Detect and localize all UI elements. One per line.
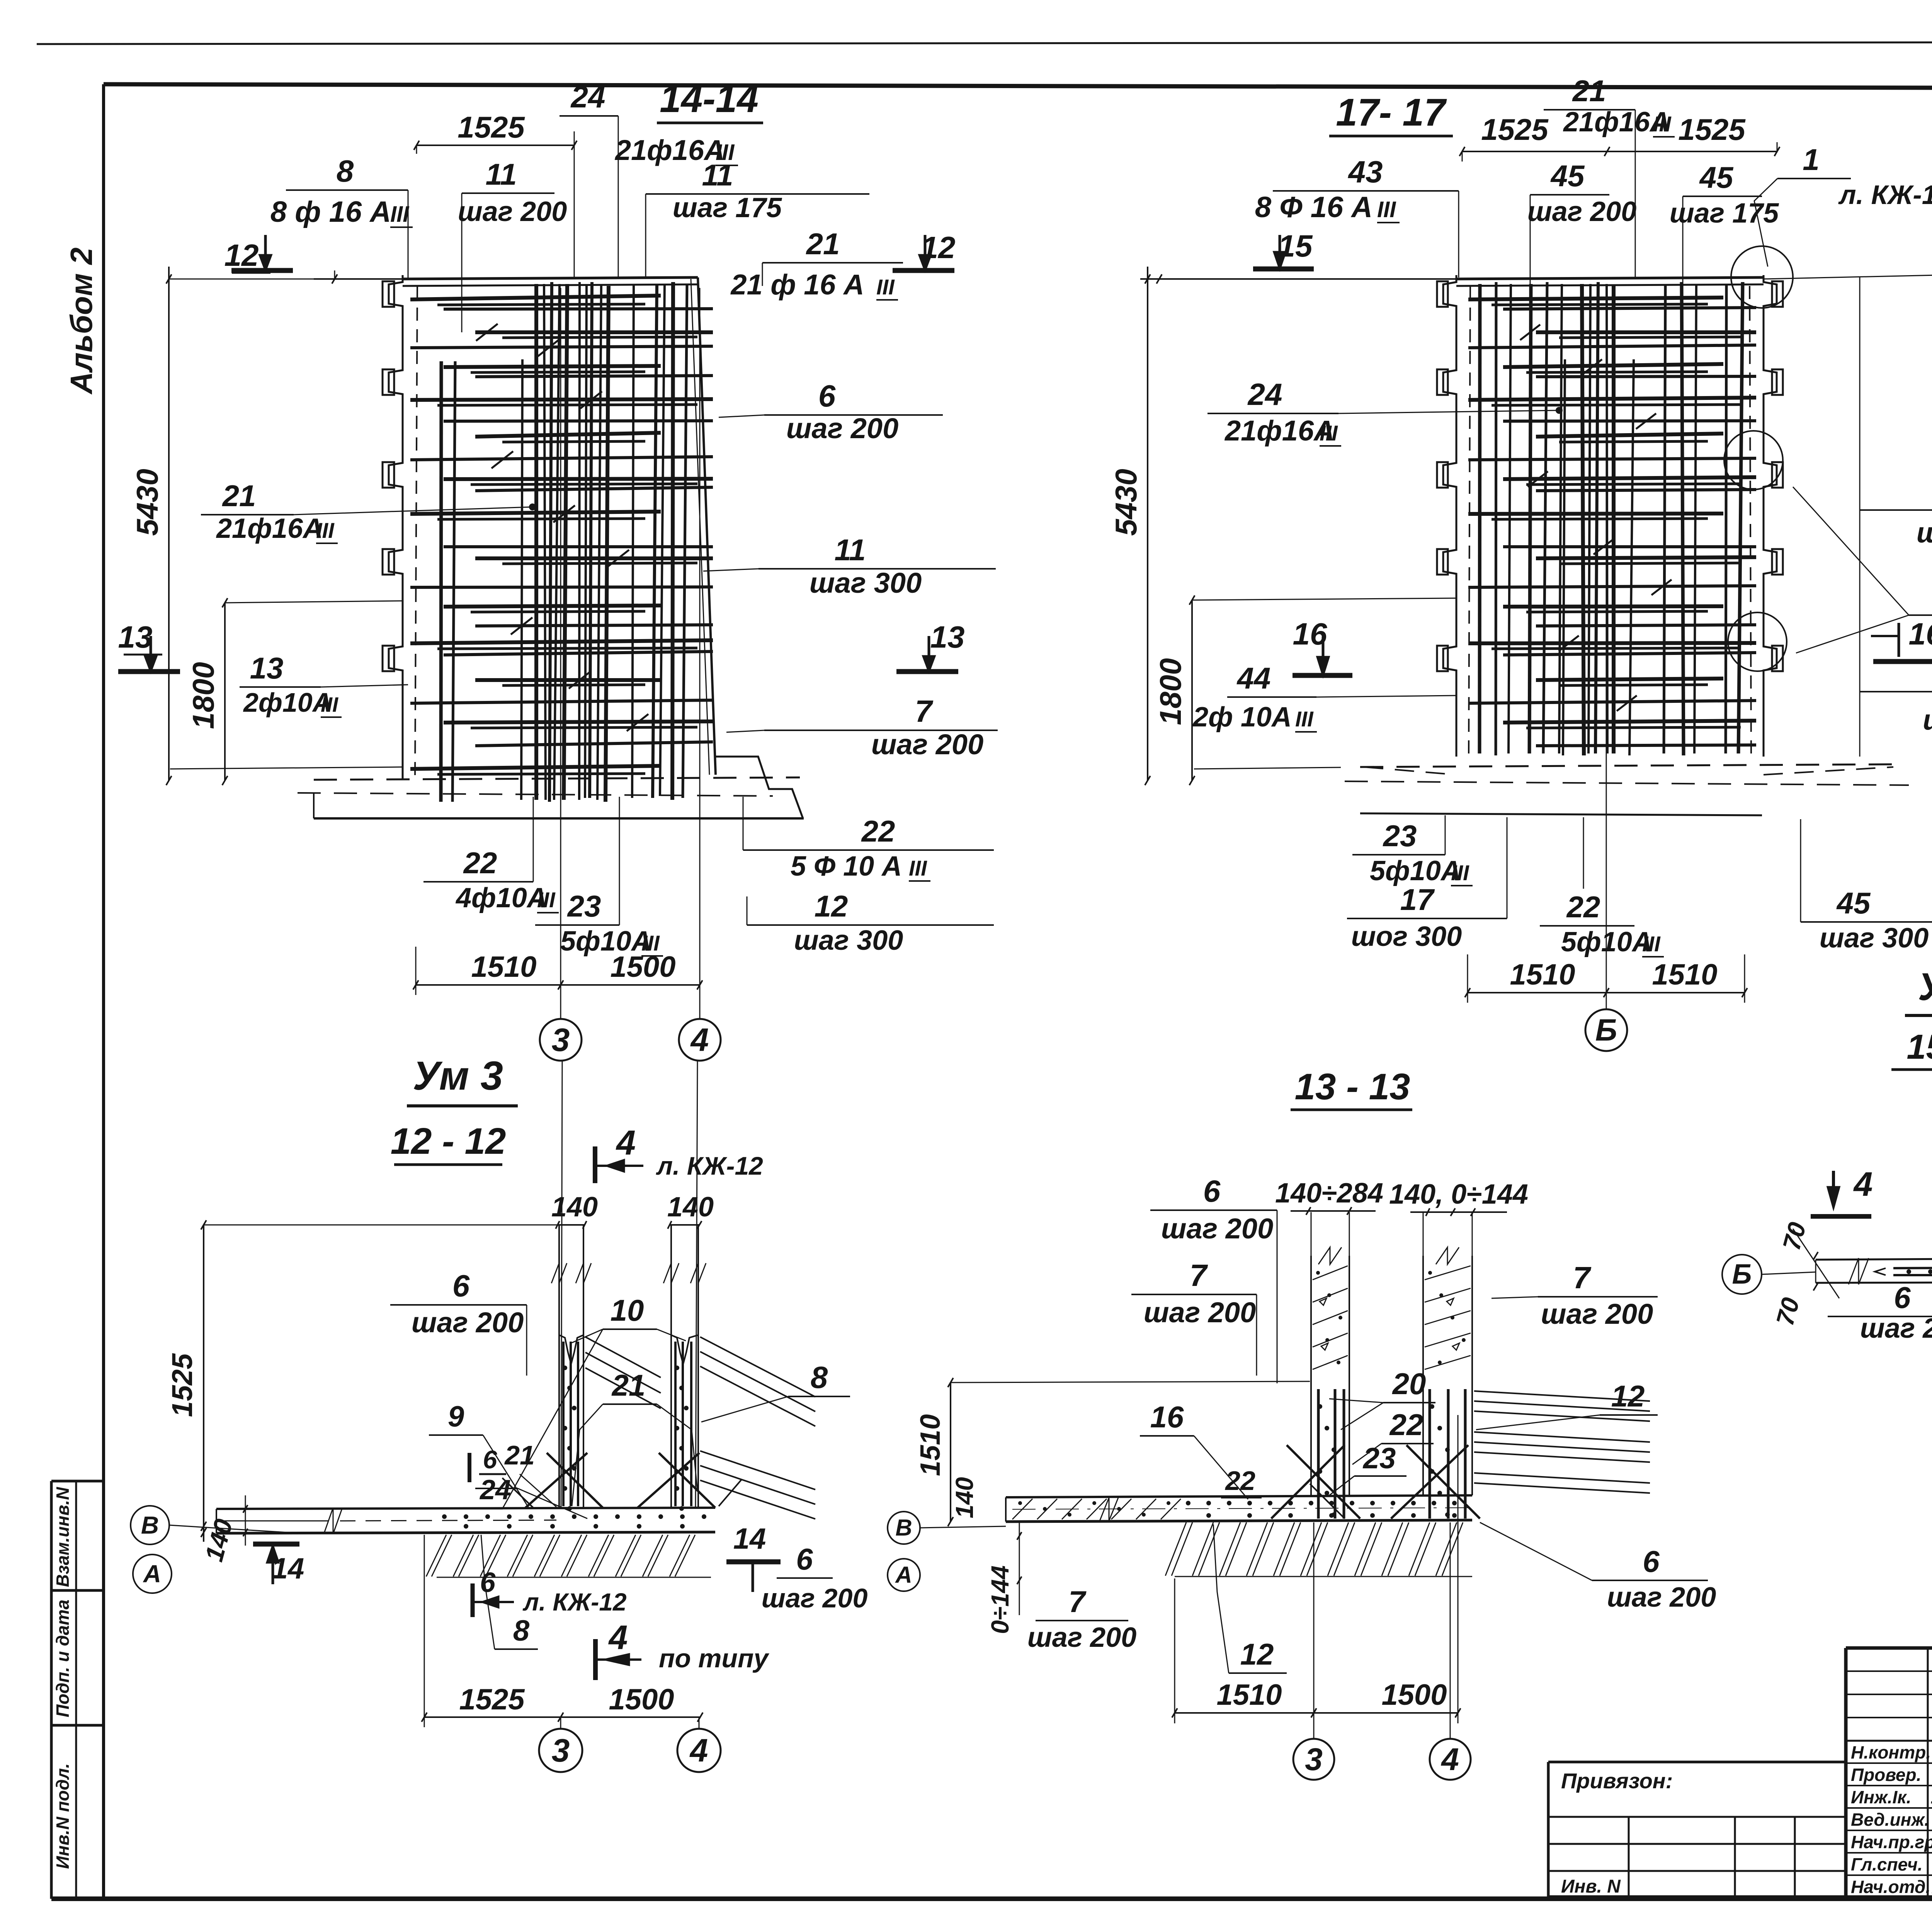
dimension 1525 1500 (12-12 bottom) [422, 1535, 703, 1727]
label 6 / шаг 200 (13-13 bottom-right) [1480, 1522, 1716, 1613]
svg-text:л. КЖ-13: л. КЖ-13 [1838, 180, 1932, 210]
section mark 4 with label л.КЖ-12 (12-12 top) [595, 1124, 763, 1183]
svg-text:7: 7 [1068, 1585, 1087, 1619]
svg-text:4ф10А: 4ф10А [455, 883, 547, 913]
label 13 / 2ф10АIII with leader [170, 651, 408, 769]
svg-text:12: 12 [1240, 1637, 1274, 1671]
14-14 cage right edge (tapered) [691, 277, 716, 775]
svg-text:6: 6 [818, 379, 836, 413]
section mark 16 (17-17 left) [1293, 617, 1352, 675]
svg-text:8: 8 [513, 1614, 530, 1647]
section mark 12 (right) [893, 230, 955, 270]
axis line Б (17-17) [1606, 288, 1607, 1010]
svg-text:Б: Б [1595, 1013, 1617, 1047]
label 22 with leader (13-13) [1352, 1408, 1434, 1464]
svg-text:6: 6 [1203, 1174, 1221, 1208]
label 7 / шаг 200 (13-13 left) [1131, 1258, 1257, 1376]
svg-text:шаг 200: шаг 200 [786, 412, 898, 444]
svg-text:7: 7 [1190, 1258, 1208, 1293]
svg-text:шаг 200: шаг 200 [458, 196, 567, 227]
svg-text:Инв.N подл.: Инв.N подл. [53, 1763, 73, 1869]
13-13 slab centerline [1012, 1508, 1468, 1509]
svg-text:Гл.спеч.: Гл.спеч. [1851, 1854, 1923, 1874]
label 21 / 21ф16АIII (17-17 top) [1544, 74, 1675, 277]
section mark 14 (12-12 left below slab) [253, 1544, 304, 1585]
svg-text:15- 15: 15- 15 [1906, 1028, 1932, 1066]
svg-text:0÷144: 0÷144 [986, 1565, 1014, 1634]
17-17 left extension line [1140, 274, 1456, 284]
axis line 3 (14-14) [560, 288, 561, 1019]
svg-text:3: 3 [552, 1022, 570, 1058]
label 8 / 8ф16АIII [270, 154, 413, 279]
svg-text:22: 22 [1389, 1408, 1423, 1442]
svg-text:8: 8 [337, 154, 354, 188]
svg-text:22: 22 [1225, 1466, 1255, 1496]
label 7 / шаг 200 (13-13 right) [1492, 1260, 1658, 1330]
axis circle 4 bottom (12-12) [677, 1717, 721, 1772]
svg-text:6: 6 [1894, 1281, 1911, 1315]
axis circle 4 (14-14) [679, 1019, 721, 1061]
svg-text:Альбом 2: Альбом 2 [64, 247, 99, 395]
svg-text:9: 9 [448, 1400, 464, 1433]
12-12 diagonal braces at wall feet [502, 1453, 742, 1508]
svg-text:шаг 200: шаг 200 [1541, 1298, 1653, 1330]
13-13 wall construction lines up to dim [1311, 1212, 1472, 1256]
13-13 diagonal braces [1271, 1445, 1480, 1519]
dimension 1525 1525 (17-17 top) [1459, 112, 1780, 162]
svg-text:8 ф 16 А: 8 ф 16 А [270, 196, 391, 228]
15-15 horizontal slab double lines [1816, 1258, 1932, 1284]
dimension 1510 1510 (17-17 bottom) [1465, 954, 1747, 1003]
svg-text:А: А [143, 1560, 161, 1588]
svg-text:В: В [141, 1511, 159, 1539]
svg-text:1525: 1525 [166, 1353, 198, 1417]
svg-text:13: 13 [250, 651, 284, 685]
svg-text:11: 11 [835, 533, 866, 567]
label 21 with leader (12-12) [572, 1368, 697, 1506]
axis circle 4 (13-13) [1430, 1522, 1471, 1780]
label 1 / л.КЖ-13 with leader to circle [1754, 143, 1932, 267]
label 45 / шаг175 (17-17) [1670, 160, 1779, 286]
svg-text:л. КЖ-12: л. КЖ-12 [656, 1151, 763, 1180]
svg-text:5 Ф 10 А: 5 Ф 10 А [791, 851, 902, 882]
label 45 / шаг 300 (17-17 bottom right) [1801, 819, 1932, 954]
svg-text:л. КЖ-12: л. КЖ-12 [522, 1588, 627, 1616]
svg-text:Провер.: Провер. [1851, 1765, 1921, 1785]
svg-text:Нач.отд.: Нач.отд. [1851, 1877, 1930, 1897]
svg-text:7: 7 [1573, 1260, 1592, 1295]
svg-text:III: III [316, 518, 335, 543]
axis circle В (13-13) [888, 1512, 1006, 1544]
svg-text:140: 140 [551, 1192, 598, 1223]
svg-text:21: 21 [806, 227, 840, 261]
svg-text:1800: 1800 [1153, 658, 1187, 725]
svg-text:шаг 200: шаг 200 [1144, 1296, 1256, 1328]
svg-text:5ф10А: 5ф10А [1370, 855, 1461, 886]
section 12-12 subtitle [391, 1121, 506, 1165]
12-12 sloped top bars right of walls [585, 1337, 815, 1519]
axis circle 3 bottom (12-12) [539, 1717, 582, 1772]
13-13 slab left hatched concrete [1012, 1498, 1181, 1521]
svg-text:Б: Б [1732, 1259, 1752, 1290]
labels 9 6 21 24 (12-12 slab leaders) [429, 1400, 587, 1519]
label 24 / 21ф16АIII (17-17 left) [1207, 377, 1563, 447]
svg-text:Подп. и дата: Подп. и дата [53, 1600, 73, 1718]
section mark 12 (left) [224, 235, 293, 273]
section 13-13 title [1291, 1066, 1412, 1110]
svg-text:13: 13 [118, 620, 153, 654]
svg-text:III: III [390, 202, 410, 227]
13-13 horizontal bars extending right [1474, 1391, 1650, 1493]
label 12 right with leader (13-13) [1476, 1379, 1658, 1430]
svg-text:Инж.Iк.: Инж.Iк. [1851, 1787, 1911, 1807]
dimension 1800 (17-17 left) [1153, 595, 1456, 785]
svg-text:шаг 300: шаг 300 [810, 567, 922, 599]
svg-text:шаг 300: шаг 300 [794, 925, 903, 956]
17-17 vertical rebars [1480, 282, 1743, 755]
svg-text:24: 24 [570, 80, 605, 114]
svg-text:140: 140 [951, 1477, 978, 1519]
section Ум6 title [1905, 965, 1932, 1015]
svg-text:45: 45 [1836, 886, 1871, 920]
svg-text:шаг 200: шаг 200 [762, 1583, 868, 1613]
svg-text:шог 300: шог 300 [1351, 921, 1462, 952]
svg-text:А: А [895, 1562, 912, 1588]
section Ум3 title [407, 1053, 518, 1106]
dimension 5430 (17-17 left) [1109, 267, 1150, 785]
section mark 13 (right) [896, 620, 964, 672]
12-12 right wall [663, 1225, 706, 1511]
label 45 / шаг200 (17-17) [1527, 159, 1637, 332]
dimension 1525 (14-14 top) [414, 110, 577, 278]
svg-text:45: 45 [1550, 159, 1585, 193]
svg-text:Взам.инв.N: Взам.инв.N [53, 1487, 73, 1587]
section mark 6 / л.КЖ-12 (12-12 bottom) [473, 1567, 627, 1617]
axis circle 3 (14-14) [540, 1019, 582, 1061]
13-13 foundation hatch below slab [1165, 1522, 1472, 1577]
section 15-15 subtitle [1891, 1028, 1932, 1070]
dimension 1800 (14-14 left) [186, 598, 403, 785]
label 8 (12-12 bottom) [481, 1535, 538, 1649]
svg-text:III: III [321, 693, 338, 716]
svg-text:14: 14 [272, 1552, 304, 1585]
label 10 with leaders (12-12) [448, 1293, 686, 1509]
svg-text:1: 1 [1803, 143, 1819, 177]
axis circle В (12-12) [131, 1506, 288, 1544]
label 23 / 5ф10АIII (bottom) [535, 797, 663, 957]
label 22 / 5ф10АIII (17-17 bottom mid) [1540, 817, 1664, 957]
13-13 left wall (hatched concrete above) [1311, 1247, 1349, 1495]
dimension 0÷144 vertical (13-13 left) [986, 1522, 1022, 1634]
section mark 14 (12-12 right below slab) [726, 1522, 781, 1592]
label 2 / л.КЖ-13 with leaders to circles [1793, 487, 1932, 653]
label 6 / шаг 200 (right) [719, 379, 943, 444]
dimension 1510 vertical (13-13 left) [915, 1378, 1310, 1526]
svg-text:6: 6 [1643, 1544, 1660, 1578]
svg-text:2ф10А: 2ф10А [243, 687, 332, 718]
svg-text:4: 4 [689, 1732, 708, 1769]
svg-text:5430: 5430 [1109, 469, 1143, 536]
svg-text:6: 6 [480, 1567, 496, 1598]
dimension 140÷284 (13-13 top) [1275, 1178, 1383, 1215]
svg-text:Ум 3: Ум 3 [413, 1053, 503, 1099]
svg-text:шаг 175: шаг 175 [673, 192, 782, 223]
svg-text:4: 4 [616, 1124, 636, 1162]
label 6 / шаг 200 (13-13 top) [1150, 1174, 1277, 1383]
attachment table Привязон [1548, 1762, 1846, 1898]
12-12 foundation hatch below slab [426, 1535, 711, 1577]
svg-text:12: 12 [1611, 1379, 1645, 1413]
label 7 / шаг 200 (right lower) [726, 694, 998, 760]
extension line from cage top-left [314, 278, 403, 280]
svg-text:21: 21 [1572, 74, 1606, 108]
14-14 horizontal rebars [410, 296, 713, 774]
svg-text:3: 3 [552, 1732, 570, 1769]
svg-text:4: 4 [608, 1618, 628, 1656]
axis circle Б (15-15 left) [1722, 1255, 1816, 1294]
svg-text:12: 12 [224, 238, 259, 272]
svg-text:22: 22 [861, 814, 895, 848]
svg-text:11: 11 [702, 158, 733, 192]
label 7 / шаг 200 (13-13 bottom-left) [1027, 1585, 1137, 1653]
svg-text:17- 17: 17- 17 [1336, 91, 1447, 134]
svg-text:20: 20 [1392, 1367, 1426, 1401]
label 6 / шаг 200 (12-12 upper-left) [390, 1269, 527, 1376]
svg-text:21 ф 16 А: 21 ф 16 А [730, 269, 864, 301]
svg-text:23: 23 [1383, 819, 1417, 853]
svg-text:1525: 1525 [1481, 112, 1549, 146]
svg-text:3: 3 [1305, 1742, 1323, 1777]
14-14 cage top chord bars [403, 277, 698, 286]
svg-text:шаг 200: шаг 200 [871, 728, 983, 760]
axis construction lines from circles (12-12) [561, 1061, 697, 1508]
svg-text:21ф16А: 21ф16А [216, 513, 323, 544]
svg-text:22: 22 [463, 846, 497, 880]
svg-text:140, 0÷144: 140, 0÷144 [1389, 1179, 1528, 1210]
svg-text:Инв. N: Инв. N [1561, 1876, 1621, 1897]
svg-text:5430: 5430 [130, 469, 164, 536]
dimension 70 70 (15-15 left) [1771, 1219, 1839, 1328]
title block names table [1846, 1648, 1932, 1898]
svg-text:24: 24 [1247, 377, 1282, 412]
section mark 16 (17-17 right) [1871, 617, 1932, 662]
svg-text:7: 7 [915, 694, 934, 728]
svg-text:по типу: по типу [659, 1644, 770, 1673]
left side stamp table [51, 1481, 104, 1899]
axis circle 3 (13-13) [1293, 1522, 1334, 1780]
17-17 callout circles on right edge [1724, 246, 1793, 671]
svg-text:4: 4 [690, 1022, 709, 1058]
17-17 horizontal rebars [1468, 298, 1756, 746]
svg-text:Вед.инж.: Вед.инж. [1851, 1810, 1929, 1830]
title block right part frame [1548, 1648, 1932, 1898]
label 8 with leader (12-12) [701, 1360, 850, 1422]
dimension 140 vertical (13-13 left) [951, 1477, 978, 1519]
label 6 / шаг 200 (15-15 left) [1828, 1281, 1932, 1344]
label 11 / шаг 300 (right) [703, 533, 996, 599]
svg-text:21: 21 [611, 1368, 646, 1402]
svg-text:шаг 200: шаг 200 [412, 1306, 524, 1338]
svg-text:шаг 200: шаг 200 [1607, 1582, 1716, 1613]
svg-text:Н.контр.: Н.контр. [1851, 1742, 1931, 1762]
17-17 cage right notched edge [1750, 275, 1783, 757]
label 22 / 4ф10АIII (bottom left) [423, 797, 559, 913]
svg-text:1500: 1500 [1381, 1679, 1447, 1711]
svg-text:13 - 13: 13 - 13 [1295, 1066, 1410, 1107]
svg-text:1525: 1525 [1678, 112, 1746, 146]
svg-text:24: 24 [479, 1475, 511, 1505]
svg-text:III: III [876, 275, 895, 299]
svg-text:шаг 200: шаг 200 [1161, 1213, 1273, 1245]
svg-text:2ф 10А: 2ф 10А [1192, 702, 1292, 733]
17-17 cage top chord [1456, 277, 1764, 286]
svg-text:1510: 1510 [915, 1414, 946, 1476]
13-13 slab rebar dots [1186, 1501, 1457, 1518]
section mark 4 (15-15 top-left) [1811, 1165, 1872, 1216]
section mark 15 (left) [1253, 229, 1314, 269]
svg-text:шаг 175: шаг 175 [1670, 198, 1779, 229]
svg-text:12: 12 [815, 889, 848, 923]
13-13 right wall (hatched concrete above) [1423, 1247, 1472, 1495]
12-12 left wall [551, 1225, 591, 1511]
14-14 cage left formwork notched edge [383, 275, 417, 779]
svg-text:1525: 1525 [457, 110, 525, 144]
svg-text:14: 14 [733, 1522, 766, 1555]
label 17 / шог 300 (17-17 bottom) [1347, 817, 1507, 952]
svg-text:6: 6 [796, 1542, 813, 1576]
svg-text:23: 23 [567, 889, 601, 923]
label 43 / 8Ф16АIII (17-17) [1255, 155, 1459, 277]
svg-text:шаг 200: шаг 200 [1860, 1313, 1932, 1344]
label 12 bottom with leader (13-13) [1213, 1524, 1287, 1673]
label 22 small (13-13 slab) [1221, 1466, 1262, 1498]
dimension 140, 0÷144 (13-13 top) [1389, 1179, 1528, 1216]
svg-text:III: III [1653, 112, 1672, 136]
svg-text:Нач.пр.гр: Нач.пр.гр [1851, 1832, 1932, 1852]
svg-text:12 - 12: 12 - 12 [391, 1121, 506, 1162]
section mark 13 (left) [118, 620, 180, 672]
label 16 with leader (13-13) [1140, 1400, 1248, 1499]
svg-text:III: III [1295, 707, 1314, 731]
label 7 / шаг 200 (17-17 right) [1860, 655, 1932, 736]
label 11 / шаг200 (top) [458, 157, 567, 332]
svg-text:140÷284: 140÷284 [1275, 1178, 1383, 1209]
13-13 floor slab [1006, 1495, 1472, 1522]
dimension 1510 / 1500 (14-14 bottom) [413, 947, 702, 995]
label 21 / 21ф16АIII (mid left) with leader [201, 479, 536, 544]
svg-text:Привязон:: Привязон: [1561, 1769, 1673, 1793]
label 21 / 21ф16АIII (right of top) [730, 227, 903, 301]
dimension 1525 vertical (12-12 left) [166, 1220, 558, 1542]
svg-text:10: 10 [611, 1293, 644, 1327]
17-17 foundation dashed lines [1345, 764, 1909, 815]
label 6 / шаг 200 (17-17 right) [1860, 474, 1932, 549]
axis circle А (12-12) [133, 1554, 172, 1593]
svg-text:21ф16А: 21ф16А [1224, 415, 1335, 447]
svg-text:III: III [1377, 197, 1396, 222]
svg-text:14-14: 14-14 [660, 77, 759, 121]
label 23 / 5ф10АIII (17-17 bottom) [1352, 815, 1473, 886]
svg-text:11: 11 [486, 157, 517, 191]
svg-text:В: В [895, 1515, 912, 1541]
17-17 right section line [1859, 277, 1861, 757]
label 20 with leaders (13-13) [1329, 1367, 1435, 1430]
svg-text:1525: 1525 [459, 1683, 525, 1716]
svg-text:16: 16 [1150, 1400, 1184, 1434]
14-14 vertical rebars [441, 282, 687, 802]
dimension 5430 (14-14 left) [130, 267, 335, 785]
svg-text:17: 17 [1400, 883, 1435, 917]
label 11 / шаг 175 (top right) [646, 158, 869, 277]
svg-text:1510: 1510 [1510, 958, 1575, 991]
label 22 / 5Ф10АIII (bottom right) [743, 797, 994, 882]
svg-text:21: 21 [222, 479, 256, 513]
svg-text:16: 16 [1909, 617, 1932, 651]
svg-text:21: 21 [504, 1440, 535, 1470]
svg-text:1800: 1800 [186, 662, 220, 729]
svg-text:1510: 1510 [1216, 1679, 1282, 1711]
svg-text:6: 6 [452, 1269, 470, 1303]
svg-text:III: III [537, 888, 556, 912]
12-12 slab rebar dots [442, 1514, 706, 1529]
axis line 4 (14-14) [699, 288, 701, 1019]
12-12 floor slab [216, 1508, 715, 1534]
svg-text:III: III [909, 856, 927, 880]
svg-text:140: 140 [667, 1192, 714, 1223]
svg-text:4: 4 [1440, 1742, 1459, 1777]
svg-text:23: 23 [1362, 1442, 1396, 1475]
label 44 / 2ф10АIII (17-17 left) [1192, 661, 1456, 769]
dimension 140 (right wall 12-12) [667, 1192, 714, 1229]
svg-text:III: III [1642, 932, 1661, 956]
svg-text:1510: 1510 [1652, 958, 1717, 991]
svg-text:1500: 1500 [609, 1683, 674, 1716]
svg-text:Ум 6: Ум 6 [1918, 965, 1932, 1009]
14-14 foundation below cage [298, 757, 804, 818]
svg-text:шаг 200: шаг 200 [1917, 517, 1932, 549]
axis circle Б (17-17) [1585, 1009, 1627, 1051]
label 23 with leader (13-13) [1329, 1442, 1406, 1495]
svg-text:45: 45 [1699, 160, 1734, 194]
svg-text:4: 4 [1853, 1165, 1873, 1203]
svg-text:щаг 200: щаг 200 [1923, 704, 1932, 736]
label 12 / шаг 300 (bottom right) [747, 889, 994, 956]
17-17 right extension line to 18-18 dim [1764, 270, 1932, 279]
svg-text:13: 13 [930, 620, 965, 654]
dimension 140 (left wall 12-12) [551, 1192, 598, 1229]
svg-text:шаг 200: шаг 200 [1027, 1622, 1137, 1653]
svg-text:22: 22 [1566, 890, 1600, 924]
label 6 / шаг 200 (12-12 right) [762, 1542, 868, 1613]
13-13 wall rebar verticals [1318, 1389, 1465, 1519]
dimension 140 vertical (12-12 left) [199, 1495, 248, 1565]
svg-text:1510: 1510 [471, 951, 536, 983]
svg-text:шаг 200: шаг 200 [1527, 196, 1637, 227]
svg-text:8 Ф 16 А: 8 Ф 16 А [1255, 191, 1372, 224]
svg-text:1500: 1500 [610, 951, 675, 983]
svg-text:шаг 300: шаг 300 [1820, 923, 1929, 954]
svg-text:43: 43 [1348, 155, 1383, 189]
section mark 4 по типу (12-12 bottom) [595, 1618, 770, 1680]
axis circle А (13-13) [888, 1559, 920, 1591]
svg-text:III: III [1320, 421, 1338, 445]
svg-text:III: III [1451, 861, 1469, 885]
sheet outer top edge line [37, 42, 1932, 44]
svg-text:6: 6 [483, 1445, 498, 1474]
dimension 1510 1500 (13-13 bottom) [1172, 1415, 1461, 1723]
svg-text:8: 8 [811, 1360, 828, 1395]
label 24 with leader [560, 80, 618, 279]
